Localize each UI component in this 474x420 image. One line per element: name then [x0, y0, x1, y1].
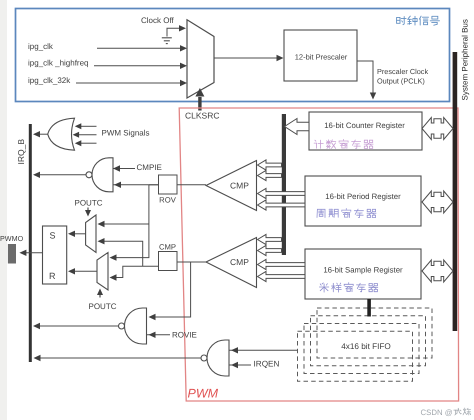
svg-text:Clock Off: Clock Off [141, 16, 175, 25]
wire latch output to PWMO pad [21, 252, 43, 254]
svg-text:12-bit Prescaler: 12-bit Prescaler [295, 53, 348, 62]
M2 select arrow [99, 295, 101, 298]
svg-text:POUTC: POUTC [75, 199, 103, 208]
label sample-register (Chinese, blue-purple) [319, 283, 377, 292]
wire sample register to FIFO (thick) [367, 299, 371, 317]
wire M1 output to S [70, 233, 86, 235]
flag box ROV [159, 175, 178, 194]
svg-text:ipg_clk_32k: ipg_clk_32k [28, 76, 71, 85]
mux M2 (reset polarity, POUTC) [97, 253, 108, 291]
bus arrows internal bus to CMP1 [258, 160, 282, 170]
svg-text:16-bit Sample Register: 16-bit Sample Register [323, 265, 403, 274]
svg-text:ipg_clk: ipg_clk [28, 42, 54, 51]
gate U2 NAND (compare interrupt) [92, 158, 113, 192]
gate U5 OR (PWM signals combine) [48, 118, 75, 150]
svg-text:CMPIE: CMPIE [137, 163, 162, 172]
wire U2 output to IRQ_B [36, 174, 86, 176]
svg-text:ROVIE: ROVIE [172, 331, 197, 340]
svg-text:CLKSRC: CLKSRC [185, 111, 219, 121]
System Peripheral Bus bar [453, 52, 458, 331]
IRQ_B bus bar [29, 124, 32, 362]
comparator CMP2 (counter vs sample) [206, 238, 257, 288]
svg-text:PWM: PWM [188, 387, 219, 401]
comparator CMP1 (counter vs period) [206, 161, 257, 211]
svg-text:R: R [49, 271, 56, 281]
wire ROV to mux inputs [149, 184, 159, 186]
flag box CMP [159, 252, 178, 271]
bus arrows period register to CMP1 [258, 188, 306, 198]
svg-text:PWM Signals: PWM Signals [102, 128, 150, 137]
label period-register (Chinese, purple) [317, 209, 376, 218]
svg-text:16-bit Counter Register: 16-bit Counter Register [324, 121, 405, 130]
bus arrow period to peripheral bus [422, 191, 453, 213]
12-bit Prescaler U1 [284, 30, 357, 81]
svg-text:.: . [470, 408, 472, 417]
svg-text:ROV: ROV [159, 195, 177, 204]
gate U4 NAND (FIFO empty interrupt) [207, 340, 229, 376]
wire mux to prescaler [214, 57, 278, 59]
wire CMP flag to mux inputs [112, 266, 159, 277]
bus arrow counter to internal bus [285, 119, 310, 135]
svg-text:CSDN @: CSDN @ [421, 408, 453, 417]
S-R latch [43, 226, 67, 284]
16-bit Period Register [305, 176, 421, 226]
CLKSRC select arrow [198, 97, 201, 111]
label counter-register (Chinese, pink) [314, 139, 373, 148]
svg-text:System Peripheral Bus: System Peripheral Bus [461, 19, 470, 100]
wire prescaler output PCLK [357, 61, 373, 93]
mux M1 (set polarity, POUTC) [86, 215, 96, 252]
PWMO pad [8, 244, 16, 264]
svg-text:Prescaler Clock: Prescaler Clock [377, 67, 428, 76]
svg-text:16-bit Period Register: 16-bit Period Register [325, 192, 401, 201]
wire ROV to U2 [113, 184, 159, 186]
mux CLKSRC (clock select) [187, 20, 214, 98]
bus arrows sample register to CMP2 [258, 259, 306, 269]
PWM module box (red) [179, 108, 458, 401]
bus arrows internal bus to CMP2 [258, 234, 282, 244]
bus arrow counter to peripheral bus [422, 118, 453, 140]
4x16 bit FIFO (stacked dashed) [317, 308, 432, 358]
PWM signal input wires [81, 125, 97, 127]
ground [162, 37, 172, 39]
wire ROVIE [147, 334, 171, 336]
wire U5 output to IRQ_B [36, 133, 48, 135]
M1 select arrow [87, 208, 89, 211]
bus arrow sample to peripheral bus [422, 260, 453, 282]
wire IRQEN [229, 364, 251, 366]
svg-text:CMP: CMP [230, 257, 249, 267]
wire M2 output to R [70, 270, 97, 272]
clock signals box (blue) [16, 9, 450, 102]
wire CMP2 output to CMP flag [177, 261, 206, 263]
16-bit Sample Register [305, 249, 421, 299]
svg-text:S: S [50, 230, 56, 240]
svg-text:PWMO: PWMO [0, 234, 24, 243]
wire U3 output to IRQ_B [36, 325, 119, 327]
svg-text:ipg_clk _highfreq: ipg_clk _highfreq [28, 59, 88, 68]
svg-text:IRQ_B: IRQ_B [16, 139, 26, 165]
internal data bus bar [282, 114, 286, 255]
wire U4 output to IRQ_B [37, 357, 202, 359]
wire FIFO to U4 [229, 349, 298, 351]
gate U3 NAND (rollover interrupt) [125, 308, 147, 344]
svg-text:CMP: CMP [159, 243, 176, 252]
svg-text:Output (PCLK): Output (PCLK) [377, 76, 425, 85]
svg-text:POUTC: POUTC [89, 302, 117, 311]
wire CMP2 down to U3 [150, 262, 191, 317]
label: clock-signal (Chinese, blue) [397, 16, 440, 25]
svg-text:IRQEN: IRQEN [254, 359, 280, 368]
svg-text:4x16 bit FIFO: 4x16 bit FIFO [341, 342, 391, 351]
svg-text:CMP: CMP [230, 181, 249, 191]
wire CMPIE [113, 168, 135, 170]
wire CMP1 output to ROV [177, 184, 206, 186]
16-bit Counter Register [309, 112, 422, 150]
